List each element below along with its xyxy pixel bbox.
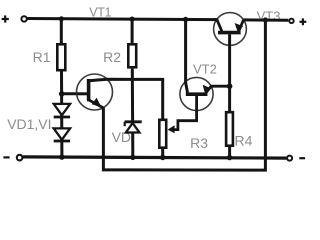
resistor R2 bbox=[128, 44, 136, 67]
node junction VD3/bottom rail bbox=[130, 155, 135, 160]
svg-text:R3: R3 bbox=[190, 135, 208, 151]
node junction right-drop/top rail bbox=[263, 17, 268, 22]
wire R3 bottom stub bbox=[161, 149, 164, 157]
wire bottom rail bbox=[23, 157, 286, 158]
wire VT3 emitter lead bbox=[239, 20, 244, 31]
resistor R1 bbox=[57, 44, 65, 70]
node junction R4/bottom rail bbox=[227, 155, 232, 160]
minus sign bottom-right bbox=[299, 157, 305, 159]
node junction R2/top rail bbox=[130, 17, 135, 22]
label VD3 bbox=[112, 129, 139, 145]
transistor VT1 base bar bbox=[87, 79, 91, 101]
node junction VT2-collector/top rail bbox=[183, 17, 188, 22]
wire R1 bottom to base node to diodes to bottom rail bbox=[60, 71, 63, 156]
wire VT1 emitter lead bbox=[89, 100, 104, 108]
svg-text:VT2: VT2 bbox=[193, 61, 217, 76]
terminal circle top-right bbox=[289, 19, 293, 23]
arrow VT3 emitter (pointing toward bar) bbox=[235, 23, 244, 32]
wire R1 feed bbox=[60, 19, 63, 44]
terminal circle top-left bbox=[21, 16, 26, 21]
node junction VD2/bottom rail bbox=[59, 154, 64, 159]
svg-text:VD1,VI: VD1,VI bbox=[7, 116, 51, 132]
node junction VT2-emitter/VT3-base bbox=[227, 83, 233, 89]
arrow VT2 emitter (pointing toward bar) bbox=[203, 85, 211, 94]
terminal circle bottom-right bbox=[287, 156, 292, 161]
wire R2 bottom to zener bbox=[131, 69, 134, 121]
wire VT1 base bbox=[62, 92, 89, 95]
diode VD2 bbox=[54, 128, 70, 141]
diode VD3 zener bbox=[125, 122, 142, 133]
wire VT1 base inside circle bbox=[77, 92, 89, 95]
resistor R4 bbox=[226, 112, 233, 146]
wire zener to bottom rail bbox=[131, 133, 134, 157]
wire VT1 emitter down, bottom return line, right riser bbox=[103, 20, 265, 170]
arrow R3 wiper bbox=[168, 125, 175, 133]
transistor VT3 circle bbox=[214, 13, 247, 46]
wire top rail left segment bbox=[27, 19, 216, 20]
terminal circle bottom-left bbox=[17, 155, 23, 161]
node junction R1/top rail bbox=[59, 16, 64, 21]
wire VT1 collector to R3 top bbox=[89, 79, 163, 119]
resistor R3 (variable) bbox=[159, 120, 166, 148]
transistor VT2 circle bbox=[180, 77, 213, 110]
arrow VT1 emitter (NPN, pointing away from base) bbox=[92, 98, 102, 107]
wire VT2 emitter to VT3 base line bbox=[206, 86, 230, 92]
svg-text:R1: R1 bbox=[33, 49, 51, 65]
wire top rail right segment bbox=[243, 18, 288, 21]
transistor VT3 base bar bbox=[218, 31, 241, 35]
wire VT3 collector lead bbox=[213, 20, 222, 32]
wire VT2 base to R3 wiper bbox=[172, 96, 197, 130]
diode VD1 bbox=[54, 104, 70, 117]
minus sign bottom-left bbox=[3, 156, 9, 158]
wire R4 bottom stub bbox=[228, 147, 231, 158]
plus sign left bbox=[2, 15, 9, 22]
transistor VT2 base bar bbox=[186, 92, 208, 96]
plus sign right bbox=[300, 18, 307, 25]
transistor VT1 circle bbox=[77, 74, 113, 110]
svg-text:R2: R2 bbox=[103, 49, 121, 65]
node VT1 base tee bbox=[59, 91, 65, 97]
wire R2 feed bbox=[131, 19, 134, 44]
svg-text:R4: R4 bbox=[235, 132, 253, 148]
wire VT2 collector from top rail bbox=[186, 19, 188, 92]
node junction R3/bottom rail bbox=[160, 155, 165, 160]
wire VT3 base down to R4 bbox=[228, 34, 231, 112]
